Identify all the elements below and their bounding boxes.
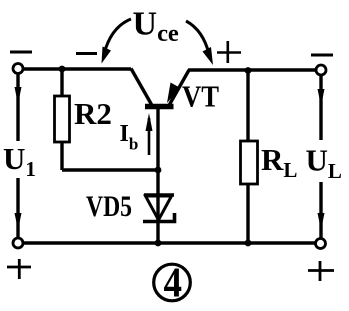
polarity minus left of transistor	[76, 52, 97, 55]
transistor VT collector lead	[131, 69, 152, 105]
wire right vertical upper	[319, 76, 322, 141]
arrow on right wire upper (down)	[318, 89, 325, 106]
junction node base/R2	[155, 167, 162, 174]
svg-text:VD5: VD5	[86, 190, 132, 223]
junction node VD5/bottom rail	[155, 240, 162, 247]
polarity plus bottom-left terminal	[7, 259, 31, 279]
terminal top-right	[316, 65, 326, 75]
Uce left arc arrow	[104, 19, 131, 54]
polarity minus top-right terminal	[311, 54, 333, 57]
wire RL top lead	[246, 70, 249, 141]
transistor VT emitter lead	[170, 70, 190, 105]
Uce right arc arrow	[186, 21, 209, 54]
resistor R2	[55, 96, 112, 142]
zener diode VD5	[86, 190, 175, 223]
wire R2 top lead	[60, 69, 63, 96]
VD5 anode bar	[144, 193, 174, 197]
VD5 cathode bar with zener tick	[143, 213, 175, 222]
transistor VT	[131, 69, 219, 114]
transistor VT base bar	[145, 104, 174, 110]
VD5 triangle	[146, 196, 172, 220]
wire top rail left segment	[23, 67, 131, 70]
wire bottom rail	[23, 241, 315, 244]
arrow on left wire upper (down)	[15, 87, 22, 104]
wire R2 bottom lead	[60, 142, 63, 170]
svg-text:4: 4	[164, 261, 183, 307]
polarity plus bottom-right terminal	[308, 261, 334, 281]
wire left vertical upper	[16, 74, 19, 141]
wire base vertical through VD5	[156, 108, 159, 243]
figure number circled 4	[154, 261, 191, 307]
junction node R2/top rail	[59, 66, 66, 73]
polarity minus top-left terminal	[10, 51, 32, 54]
svg-text:VT: VT	[182, 79, 219, 114]
polarity plus right of transistor	[217, 41, 241, 63]
junction node RL/top rail	[245, 67, 252, 74]
transistor VT emitter arrow	[167, 83, 181, 104]
wire left vertical lower	[16, 178, 19, 238]
junction node RL/bottom rail	[245, 240, 252, 247]
wire RL bottom lead	[246, 184, 249, 243]
resistor RL	[241, 141, 298, 184]
base current Ib arrow	[120, 113, 153, 155]
wire R2 to base horizontal	[62, 168, 158, 171]
arrow on right wire lower (down)	[318, 213, 325, 230]
wire right vertical lower	[319, 182, 322, 239]
svg-text:R2: R2	[74, 96, 112, 131]
terminal bottom-right	[316, 239, 326, 249]
wire top rail right segment	[188, 68, 316, 71]
arrow on left wire lower (down)	[15, 213, 22, 230]
terminal top-left	[13, 64, 23, 74]
terminal bottom-left	[13, 238, 23, 248]
